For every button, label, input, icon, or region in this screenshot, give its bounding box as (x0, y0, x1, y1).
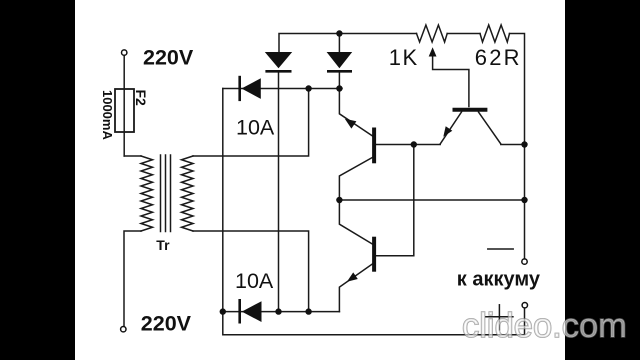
svg-text:62R: 62R (475, 45, 522, 70)
svg-text:10A: 10A (235, 269, 274, 293)
svg-text:к аккуму: к аккуму (457, 269, 541, 291)
svg-text:F2: F2 (133, 90, 149, 107)
svg-text:220V: 220V (141, 311, 192, 335)
svg-text:10A: 10A (236, 116, 275, 140)
svg-text:1000mA: 1000mA (100, 90, 115, 140)
svg-text:clideo.com: clideo.com (462, 307, 627, 345)
svg-text:Tr: Tr (156, 237, 170, 253)
svg-text:220V: 220V (143, 46, 194, 70)
svg-text:1K: 1K (389, 45, 419, 70)
